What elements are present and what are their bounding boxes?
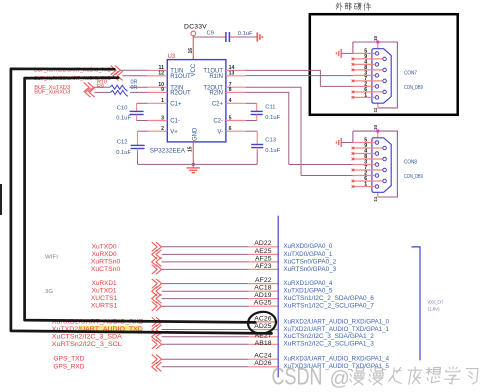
port chevron XUCTS1 (in): [152, 294, 161, 303]
CPU pin stub AE27: [249, 336, 279, 338]
wire C12 to GND net: [137, 149, 139, 165]
label CON_DB9 (CON7): [404, 85, 423, 91]
svg-text:CON7: CON7: [404, 71, 417, 77]
group label WIFI: [45, 255, 58, 261]
net label BUF_XuRXD2/UART_AUDIO_RXD: [34, 76, 111, 82]
svg-text:XuRXD1/GPA0_4: XuRXD1/GPA0_4: [283, 280, 332, 287]
wire U3 pin2 (V+) to C12: [138, 131, 148, 145]
port chevron XuRTSn0 (in): [152, 258, 161, 267]
CPU pin stub AF23: [249, 268, 279, 270]
wire XuRTSn2/I2C_3_SCL to CPU: [162, 343, 249, 345]
CON8 pin stubs: [353, 143, 383, 187]
svg-text:XuRXD3/UART_AUDIO_RXD/GPA1_4: XuRXD3/UART_AUDIO_RXD/GPA1_4: [283, 356, 389, 363]
svg-text:9: 9: [161, 87, 164, 93]
CON7 pin numbers: [364, 49, 367, 99]
wire XuTXD1 to CPU: [162, 290, 249, 292]
ground (at CON7 pin 5): [336, 49, 341, 58]
pin number AE25: [255, 248, 272, 255]
wire GPS_TXD to CPU: [162, 358, 249, 360]
pin number AF25: [255, 255, 272, 262]
svg-text:XuRTSn2/I2C_3_SCL/GPA1_3: XuRTSn2/I2C_3_SCL/GPA1_3: [283, 341, 374, 348]
svg-text:XuTXD0: XuTXD0: [92, 243, 117, 250]
svg-text:XuTXD1: XuTXD1: [92, 288, 117, 295]
CPU pin name XuRXD0/GPA0_0: [283, 243, 332, 250]
svg-text:10: 10: [373, 35, 378, 41]
port chevron BUF_XuRXD3 (in): [85, 88, 94, 97]
page border mark (left edge): [0, 184, 2, 215]
svg-text:CSDN: CSDN: [272, 363, 323, 390]
wire XURTS1 to CPU: [162, 305, 249, 307]
svg-text:XuCTSn0: XuCTSn0: [91, 266, 121, 273]
U3 pin 15 stub (GND): [188, 142, 194, 165]
svg-text:10: 10: [373, 125, 378, 131]
port chevron XuRTSn2/I2C_3_SCL (out): [152, 340, 161, 349]
pin number AB18: [255, 340, 272, 347]
highlight (yellow) on UART_AUDIO_TXD: [79, 326, 141, 334]
svg-text:XuRXD0/GPA0_0: XuRXD0/GPA0_0: [283, 243, 332, 250]
net label BUF_XuTXD3: [34, 85, 70, 91]
svg-text:C1+: C1+: [170, 102, 182, 108]
resistor R9 0R: [97, 84, 137, 97]
net label GPS_RXD: [53, 363, 84, 370]
CON7 no-connect X marks: [352, 58, 355, 99]
svg-text:6: 6: [229, 126, 232, 132]
svg-text:0.1uF: 0.1uF: [116, 150, 131, 156]
svg-text:R2IN: R2IN: [209, 91, 223, 97]
wire GND net (C12 to U3 gnd to C13): [138, 163, 258, 165]
svg-text:13: 13: [229, 71, 235, 77]
svg-text:0R: 0R: [131, 85, 138, 91]
svg-text:GPS_TXD: GPS_TXD: [53, 356, 84, 363]
svg-text:AD25: AD25: [254, 323, 272, 330]
ground (at CON8 pin 5): [336, 138, 341, 147]
CPU pin name XuCTSn1/I2C_2_SDA/GPA0_6: [283, 295, 374, 302]
wire U3 R1IN to CON7 pin3: [246, 75, 353, 77]
svg-text:CON_DB9: CON_DB9: [404, 174, 423, 180]
wire XUCTS1 to CPU: [162, 298, 249, 300]
svg-text:XuCTSn2/I2C_3_SDA: XuCTSn2/I2C_3_SDA: [52, 333, 123, 340]
svg-text:VDDC_EXT: VDDC_EXT: [428, 300, 444, 305]
port chevron XuRXD2/UART_AUDIO_RXD (out): [152, 318, 161, 327]
svg-text:XuRTSn1/I2C_2_SCL/GPA0_7: XuRTSn1/I2C_2_SCL/GPA0_7: [283, 303, 374, 310]
CPU pin stub AC26: [249, 321, 279, 323]
label CON_DB9 (CON8): [404, 174, 423, 180]
wire DC33V node to C9: [193, 36, 225, 38]
svg-text:1: 1: [364, 182, 367, 188]
svg-text:DC33V: DC33V: [184, 24, 207, 31]
IC U3 SP3232EEA body: [150, 54, 226, 154]
svg-text:5: 5: [229, 115, 232, 121]
CPU pin stub AB18: [249, 343, 279, 345]
net label XuCTSn0: [91, 266, 121, 273]
wire R9 to U3 pin9: [130, 91, 148, 93]
junction (shield CON8): [376, 130, 379, 133]
svg-text:C13: C13: [265, 138, 276, 144]
port chevron XuRXD0 (in): [152, 250, 161, 259]
svg-text:0.1uF: 0.1uF: [265, 115, 280, 121]
pin number AC18: [254, 285, 272, 292]
svg-text:GND: GND: [192, 127, 198, 141]
pin number AC24: [254, 353, 272, 360]
box title 外部硬件: [336, 2, 371, 10]
net label XuRXD2/UART_AUDIO_RXD: [52, 318, 144, 325]
svg-text:1: 1: [364, 93, 367, 99]
svg-text:SP3232EEA: SP3232EEA: [150, 147, 186, 154]
port chevron GPS_RXD (in): [152, 362, 161, 371]
annotation wire (BUF_XuRXD2 to XuRXD2 row): [25, 78, 256, 323]
CON8 no-connect X marks: [352, 147, 355, 188]
svg-text:C9: C9: [207, 30, 214, 36]
svg-text:CON_DB9: CON_DB9: [404, 85, 423, 91]
svg-text:AF22: AF22: [255, 277, 272, 284]
net label XuRXD0: [92, 251, 117, 258]
CPU pin name XuTXD3/UART_AUDIO_TXD/GPA1_5: [283, 363, 389, 370]
CPU pin name XuRTSn0/GPA0_3: [283, 266, 336, 273]
wire U3 pin1 to C10: [137, 103, 148, 111]
capacitor C12 0.1uF: [116, 140, 144, 156]
wire U3 pin4 to C11: [246, 103, 257, 111]
wire XuRXD2/UART_AUDIO_RXD to CPU: [162, 321, 249, 323]
port chevron BUF_XuTXD3 (out): [84, 83, 93, 92]
port chevron GPS_TXD (out): [152, 355, 161, 364]
wire U3 T2OUT to CON8 pin2: [246, 87, 353, 175]
svg-text:R2OUT: R2OUT: [170, 91, 191, 97]
wire U3 R2IN to CON8 pin3: [246, 92, 353, 164]
CPU pin name XuCTSn2/I2C_3_SDA/GPA1_2: [283, 333, 374, 340]
svg-text:XuRXD0: XuRXD0: [92, 251, 117, 258]
net label XuTXD1: [92, 288, 117, 295]
svg-text:AD19: AD19: [254, 292, 272, 299]
CPU pin stub AD25: [249, 329, 279, 331]
svg-text:C10: C10: [117, 105, 128, 111]
connector CON8 CON_DB9 body: [372, 138, 391, 193]
U3 right pin names: [203, 69, 223, 136]
svg-text:XuRXD1: XuRXD1: [92, 280, 117, 287]
net label BUF_XuRXD3: [34, 90, 70, 96]
CPU pin name XuRXD3/UART_AUDIO_RXD/GPA1_4: [283, 356, 389, 363]
power symbol DC33V: [184, 24, 207, 36]
wire XuTXD2/UART_AUDIO_TXD to CPU: [162, 329, 249, 331]
svg-text:VCC: VCC: [191, 63, 197, 76]
net label XURTS1: [91, 303, 118, 310]
U3 left pin numbers: [158, 65, 164, 132]
svg-text:3: 3: [161, 115, 164, 121]
CPU pin name XuRTSn2/I2C_3_SCL/GPA1_3: [283, 341, 374, 348]
pin number AF23: [255, 263, 272, 270]
CPU pin stub AF25: [249, 261, 279, 263]
net label GPS_TXD: [53, 356, 84, 363]
port chevron XuRXD1 (out): [152, 279, 161, 288]
svg-text:XuRXD2/UART_AUDIO_RXD/GPA1_0: XuRXD2/UART_AUDIO_RXD/GPA1_0: [283, 318, 389, 325]
net label XuCTSn2/I2C_3_SDA: [52, 333, 123, 340]
annotation ellipse around AC26/AD25: [247, 310, 277, 335]
svg-text:AE25: AE25: [255, 248, 272, 255]
svg-text:C2-: C2-: [213, 119, 223, 125]
watermark CSDN @漫漫长夜想学习: [272, 363, 479, 390]
junction (GND net): [192, 163, 195, 166]
label CON7: [404, 71, 417, 77]
svg-text:XuRTSn2/I2C_3_SCL: XuRTSn2/I2C_3_SCL: [52, 341, 122, 348]
CON8 pin numbers: [364, 138, 367, 188]
pin number AE27: [255, 333, 272, 340]
svg-text:AD22: AD22: [254, 240, 272, 247]
svg-text:XuCTSn2/I2C_3_SDA/GPA1_2: XuCTSn2/I2C_3_SDA/GPA1_2: [283, 333, 374, 340]
wire ground to CON8 pin 5: [341, 142, 353, 144]
CON7 pin circles: [375, 52, 386, 100]
net label XuRTSn2/I2C_3_SCL: [52, 341, 122, 348]
port chevron XuTXD0 (out): [152, 242, 161, 251]
wire U3 pin6 (V-) to C13: [246, 131, 258, 144]
net label XuRTSn0: [91, 258, 121, 265]
capacitor C13 0.1uF: [251, 138, 280, 155]
svg-text:12: 12: [158, 71, 164, 77]
svg-text:4: 4: [229, 98, 232, 104]
svg-text:XuTXD2/UART_AUDIO_TXD/GPA1_1: XuTXD2/UART_AUDIO_TXD/GPA1_1: [283, 326, 389, 333]
U3 right pin stubs: [226, 70, 246, 131]
port chevron XuCTSn0 (out): [152, 265, 161, 274]
svg-text:WIFI: WIFI: [45, 255, 58, 261]
CPU pin stub AD26: [249, 366, 279, 368]
svg-text:1: 1: [161, 98, 164, 104]
CPU pin stub AC18: [249, 290, 279, 292]
CON8 pin circles: [375, 141, 386, 189]
U3 pin 16 number: [188, 48, 194, 54]
svg-text:R9: R9: [97, 84, 104, 90]
CPU pin name XuTXD2/UART_AUDIO_TXD/GPA1_1: [283, 326, 389, 333]
svg-text:AB18: AB18: [255, 340, 272, 347]
CON7 pin stubs: [353, 53, 383, 97]
U3 right pin numbers: [229, 65, 235, 132]
net label XuRXD1: [92, 280, 117, 287]
svg-text:GPS_RXD: GPS_RXD: [53, 363, 84, 370]
pin number AD25: [254, 323, 272, 330]
svg-text:@: @: [330, 368, 350, 390]
svg-text:V+: V+: [170, 129, 178, 135]
external-hardware box (外部硬件): [310, 14, 458, 115]
wire BUF_XuRXD3 to R9: [94, 91, 110, 93]
svg-text:0.1uF: 0.1uF: [265, 148, 280, 154]
svg-text:16: 16: [188, 48, 194, 54]
wire DC33V to U3 pin 16 (VCC): [192, 36, 194, 60]
CPU pin stub AD22: [249, 246, 279, 248]
wire BUF_XuTXD3 to R10: [93, 86, 110, 88]
annotation wire (BUF_XuTXD2 to XuTXD2 row): [11, 69, 272, 334]
svg-text:XUCTS1: XUCTS1: [91, 295, 118, 302]
port chevron XuTXD2/UART_AUDIO_TXD (in): [152, 325, 161, 334]
wire XuRXD1 to CPU: [162, 283, 249, 285]
ground (below U3): [187, 164, 200, 172]
CON7 pin 11 stub (shield): [373, 103, 378, 112]
net label XuTXD0: [92, 243, 117, 250]
svg-text:C11: C11: [265, 105, 275, 111]
pin number AD26: [254, 360, 272, 367]
net label BUF_XuTXD2/UART_AUDIO_TXD: [34, 68, 111, 74]
svg-text:15: 15: [188, 146, 194, 152]
wire U3 T1OUT to CON7 pin2: [246, 70, 353, 86]
svg-text:AC24: AC24: [254, 353, 272, 360]
wire BUF_XuRXD2 to U3 pin12: [122, 75, 147, 77]
port chevron XURTS1 (out): [152, 302, 161, 311]
svg-text:CON8: CON8: [404, 160, 417, 166]
CPU pin stub AG25: [249, 305, 279, 307]
port chevron BUF_XuRXD2 (in): [113, 71, 122, 80]
connector CON7 CON_DB9 body: [372, 49, 391, 103]
svg-text:XURTS1: XURTS1: [91, 303, 118, 310]
svg-text:U3: U3: [168, 54, 176, 60]
wire C9 to ground: [236, 36, 257, 38]
U3 left pin names: [170, 69, 191, 136]
svg-text:11: 11: [373, 107, 378, 112]
svg-text:R1IN: R1IN: [209, 74, 223, 80]
net label XuTXD2/UART_AUDIO_TXD: [52, 326, 143, 333]
CPU pin name XuRXD2/UART_AUDIO_RXD/GPA1_0: [283, 318, 389, 325]
svg-text:C2+: C2+: [212, 102, 224, 108]
junction (shield CON7): [376, 40, 379, 43]
svg-text:2: 2: [161, 126, 164, 132]
svg-text:3G: 3G: [45, 289, 53, 295]
CPU pin name XuCTSn0/GPA0_2: [283, 258, 336, 265]
svg-text:R1OUT: R1OUT: [170, 74, 191, 80]
svg-text:XuRTSn0/GPA0_3: XuRTSn0/GPA0_3: [283, 266, 336, 273]
ground (right of C9, rotated): [257, 32, 262, 41]
svg-text:AF25: AF25: [255, 255, 272, 262]
CPU pin name XuTXD1/GPA0_5: [283, 288, 332, 295]
svg-text:BUF_XuRXD3: BUF_XuRXD3: [34, 90, 70, 96]
wire XuRXD0 to CPU: [162, 253, 249, 255]
port chevron BUF_XuTXD2 (out): [111, 66, 120, 75]
label CON8: [404, 160, 417, 166]
wire XuRTSn0 to CPU: [162, 261, 249, 263]
wire BUF_XuTXD2 to U3 pin11: [120, 69, 147, 71]
svg-text:C12: C12: [117, 140, 128, 146]
group label 3G: [45, 289, 53, 295]
CON7 pin 10 stub (shield): [373, 35, 378, 48]
wire R10 to U3 pin10: [130, 86, 148, 88]
wire C11 to U3 pin5: [246, 115, 257, 121]
U3 left pin stubs: [148, 70, 168, 131]
svg-text:C1-: C1-: [170, 119, 180, 125]
CPU pin name XuRTSn1/I2C_2_SCL/GPA0_7: [283, 303, 374, 310]
capacitor C11 0.1uF: [251, 105, 281, 122]
wire C10 to U3 pin3: [137, 115, 148, 121]
svg-text:V-: V-: [217, 129, 223, 135]
pin number AD22: [254, 240, 272, 247]
CON8 pin 10 stub (shield): [373, 125, 378, 138]
wire XuCTSn0 to CPU: [162, 268, 249, 270]
port chevron XuTXD1 (in): [152, 287, 161, 296]
CPU pin stub AD19: [249, 298, 279, 300]
wire shield loop CON8: [353, 131, 398, 197]
CPU pin stub AC24: [249, 358, 279, 360]
svg-text:XuCTSn1/I2C_2_SDA/GPA0_6: XuCTSn1/I2C_2_SDA/GPA0_6: [283, 295, 374, 302]
svg-text:AD26: AD26: [254, 360, 272, 367]
svg-text:AG25: AG25: [254, 300, 272, 307]
CPU pin stub AF22: [249, 283, 279, 285]
CON8 pin 11 stub (shield): [373, 192, 378, 201]
svg-text:0.1uF: 0.1uF: [238, 31, 253, 37]
CPU pin name XuTXD0/GPA0_1: [283, 251, 332, 258]
wire XuCTSn2/I2C_3_SDA to CPU: [162, 336, 249, 338]
pin number AC26: [254, 315, 272, 322]
svg-text:XuTXD1/GPA0_5: XuTXD1/GPA0_5: [283, 288, 332, 295]
wire C13 to GND net: [256, 148, 258, 165]
CPU pin stub AE25: [249, 253, 279, 255]
net label XUCTS1: [91, 295, 118, 302]
pin number AD19: [254, 292, 272, 299]
svg-text:0.1uF: 0.1uF: [116, 116, 131, 122]
wire GPS_RXD to CPU: [162, 366, 249, 368]
resistor R10 0R: [97, 79, 137, 91]
wire ground to CON7 pin 5: [341, 52, 353, 54]
power bracket VDDC_EXT: [411, 247, 420, 360]
CPU pin name XuRXD1/GPA0_4: [283, 280, 332, 287]
svg-text:XuTXD0/GPA0_1: XuTXD0/GPA0_1: [283, 251, 332, 258]
port chevron XuCTSn2/I2C_3_SDA (in): [152, 332, 161, 341]
svg-text:XuRTSn0: XuRTSn0: [91, 258, 121, 265]
pin number AF22: [255, 277, 272, 284]
pin number AG25: [254, 300, 272, 307]
svg-text:XuCTSn0/GPA0_2: XuCTSn0/GPA0_2: [283, 258, 336, 265]
wire shield loop CON7: [353, 42, 398, 108]
capacitor C10 0.1uF: [116, 105, 143, 121]
svg-text:8: 8: [229, 87, 232, 93]
svg-text:AC26: AC26: [254, 315, 272, 322]
capacitor C9 0.1uF: [207, 30, 254, 42]
svg-text:AF23: AF23: [255, 263, 272, 270]
wire XuTXD0 to CPU: [162, 246, 249, 248]
svg-text:AC18: AC18: [254, 285, 272, 292]
svg-text:11: 11: [373, 196, 378, 201]
svg-text:(1.8V): (1.8V): [428, 306, 440, 311]
net label VDDC_EXT (1.8V): [428, 300, 444, 312]
CPU symbol edge (left boundary line): [277, 216, 279, 378]
